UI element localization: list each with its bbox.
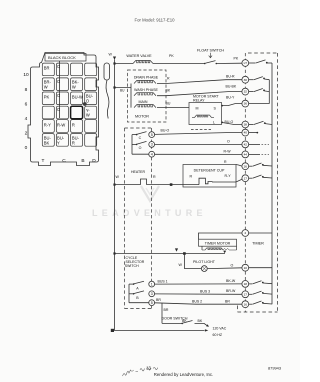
svg-text:R: R [190, 175, 193, 179]
pin 5 (motor plug) [149, 132, 155, 138]
timer collector wire (right) [271, 63, 273, 304]
svg-text:C: C [62, 158, 66, 164]
connector plug P1 [104, 63, 110, 80]
winding: MAIN [134, 100, 156, 107]
svg-text:W: W [72, 84, 76, 89]
svg-text:4: 4 [244, 231, 246, 235]
svg-text:BR: BR [225, 300, 230, 304]
junction: heater/detergent node [170, 183, 173, 186]
cycle selector switch labels [125, 256, 145, 268]
svg-text:TIMER MOTOR: TIMER MOTOR [205, 242, 231, 246]
timer motor M2 [199, 233, 243, 253]
net label PK (timer side) [234, 57, 239, 61]
wire: main winding to start relay M (BU) [157, 102, 189, 108]
svg-text:LT: LT [244, 61, 247, 65]
footer: rendered-by credit [154, 372, 213, 377]
title: For Model: 9117-E10 [134, 17, 175, 22]
wire: BUS 2 / BR [155, 298, 243, 304]
motor assembly dashed enclosure [128, 70, 167, 122]
svg-text:R: R [224, 160, 227, 164]
watermark LEADVENTURE text [92, 208, 207, 218]
svg-text:R-W: R-W [57, 123, 65, 128]
svg-text:BK: BK [166, 88, 171, 92]
svg-text:3: 3 [151, 143, 153, 147]
timer terminal 17b [242, 291, 249, 298]
svg-text:40: 40 [244, 131, 248, 135]
contact A (cycle selector) [129, 281, 144, 290]
motor plug common vertical [131, 135, 133, 155]
footer: page number 13 [146, 366, 151, 371]
cam contact 17 [248, 175, 272, 178]
wire: detergent top feed to timer 26 [224, 160, 242, 166]
svg-text:BK: BK [182, 319, 187, 323]
svg-text:30: 30 [244, 78, 248, 82]
svg-text:BU-W: BU-W [72, 95, 83, 100]
svg-text:42: 42 [244, 143, 248, 147]
timer terminal LT [242, 60, 249, 67]
wire: pilot terminal link [248, 267, 272, 269]
svg-text:8: 8 [25, 87, 28, 93]
wire: plug pin 4 lead [132, 153, 149, 155]
svg-text:S: S [214, 107, 217, 111]
svg-text:3: 3 [151, 292, 153, 296]
pin 3 (motor plug) [149, 142, 155, 148]
svg-text:WATER VALVE: WATER VALVE [126, 54, 152, 58]
svg-text:MAIN: MAIN [139, 100, 148, 104]
svg-text:DRAIN PHASE: DRAIN PHASE [134, 76, 159, 80]
switch: DOOR SWITCH [162, 316, 209, 326]
svg-text:4: 4 [25, 116, 28, 122]
svg-text:BU-Y: BU-Y [226, 96, 235, 100]
svg-text:5: 5 [151, 301, 153, 305]
svg-text:Rendered by LeadVenture, Inc.: Rendered by LeadVenture, Inc. [154, 372, 213, 377]
svg-text:44: 44 [244, 153, 248, 157]
svg-text:L: L [213, 121, 215, 125]
pilot light DS1 [179, 254, 243, 272]
svg-text:BU-BK: BU-BK [226, 85, 237, 89]
svg-text:W: W [109, 53, 113, 57]
timer terminal 36 [242, 100, 249, 107]
pin 5 (cycle selector) [149, 300, 155, 306]
console dashed enclosure (motor plug + cycle selector) [125, 128, 152, 309]
svg-text:O: O [57, 79, 60, 84]
svg-text:W: W [44, 84, 48, 89]
svg-text:WASH PHASE: WASH PHASE [134, 88, 158, 92]
timer terminal 26 [242, 163, 249, 170]
pin 4 (motor plug) [149, 151, 155, 157]
wire: wash phase to timer 32 (BK) [157, 85, 242, 96]
terminal grid cells [42, 63, 96, 146]
wire: bus link to motor [113, 86, 131, 92]
timer dashed enclosure [238, 53, 278, 312]
svg-text:60 HZ: 60 HZ [213, 333, 223, 337]
svg-text:6: 6 [25, 102, 28, 108]
contact C (motor plug) [132, 132, 147, 140]
svg-text:PK: PK [234, 57, 239, 61]
svg-text:4: 4 [151, 153, 153, 157]
junction: pilot branch node [183, 252, 186, 255]
footer: document number 879943 [268, 365, 281, 370]
svg-text:HEATER: HEATER [131, 170, 145, 174]
svg-text:32: 32 [244, 90, 248, 94]
label MOTOR [135, 115, 149, 119]
pin 3 (cycle selector) [149, 291, 155, 297]
wire: neutral bottom line [111, 329, 209, 332]
svg-text:BU-O: BU-O [161, 129, 170, 133]
wire: terminal 42 stub [248, 143, 269, 145]
svg-text:BU-O: BU-O [225, 120, 234, 124]
svg-text:BU: BU [120, 88, 125, 92]
wire: terminal 40 stub [248, 132, 258, 134]
svg-text:B: B [81, 158, 84, 164]
wire: timer motor terminal link [248, 232, 272, 234]
svg-text:O: O [139, 146, 142, 150]
svg-text:B: B [136, 296, 139, 300]
svg-text:O: O [231, 264, 234, 268]
label TIMER [252, 242, 264, 246]
wire: BUS 1 [155, 279, 243, 284]
svg-text:R-W: R-W [224, 149, 232, 153]
cam contact BUS1 [248, 281, 272, 284]
svg-text:O: O [57, 93, 60, 98]
cam contact 30 [248, 77, 269, 80]
svg-text:For Model: 9117-E10: For Model: 9117-E10 [134, 17, 175, 22]
wire: relay L to timer 38 (BU-O) [222, 120, 243, 124]
timer terminal 17 [242, 175, 249, 182]
wire: winding common vertical [130, 84, 132, 108]
cam contact 38 [248, 121, 272, 124]
svg-text:36: 36 [244, 102, 248, 106]
winding: DRAIN PHASE [134, 76, 159, 84]
cam contact BUS2 [248, 301, 272, 304]
heater element [131, 170, 156, 185]
svg-text:120 VAC: 120 VAC [213, 326, 227, 330]
timer terminal 30 [242, 76, 249, 83]
svg-text:TIMER: TIMER [252, 242, 264, 246]
winding: WASH PHASE [134, 88, 159, 96]
svg-text:26: 26 [244, 164, 248, 168]
timer terminal 32 [242, 88, 249, 95]
timer terminal 42 [242, 141, 249, 148]
svg-text:17: 17 [244, 292, 248, 296]
wire: BUS 3 [155, 289, 243, 294]
timer terminal 4 (timer motor) [242, 230, 249, 237]
svg-text:DETERGENT CUP: DETERGENT CUP [194, 169, 225, 173]
svg-text:R-Y: R-Y [44, 123, 51, 128]
timer terminal 16 [242, 301, 249, 308]
contact O (motor plug) [132, 141, 147, 150]
pin row numbers 10 8 6 4 2 0 [23, 72, 29, 151]
svg-text:R: R [167, 76, 170, 80]
svg-text:O: O [86, 99, 89, 104]
svg-text:W: W [116, 175, 120, 179]
svg-text:BR-W: BR-W [226, 289, 236, 293]
svg-text:18: 18 [244, 282, 248, 286]
svg-text:R: R [72, 123, 75, 128]
bimetal actuator (detergent cup) [199, 178, 212, 184]
svg-text:FLOAT SWITCH: FLOAT SWITCH [197, 49, 224, 53]
svg-text:R: R [153, 175, 156, 179]
svg-text:M: M [196, 107, 199, 111]
connector: BLACK BLOCK outline [28, 53, 99, 166]
svg-text:O: O [57, 64, 60, 69]
solenoid coil: WATER VALVE [126, 54, 153, 64]
svg-text:BR: BR [156, 298, 161, 302]
svg-text:A: A [136, 287, 139, 291]
wire: pin3 to timer 42 (O) [155, 139, 243, 144]
svg-text:R: R [72, 140, 75, 145]
cam contact LT [248, 60, 272, 64]
svg-text:BR: BR [164, 308, 169, 312]
net label PK [169, 54, 174, 58]
timer terminal 18 [242, 281, 249, 288]
pin 1 (cycle selector) [149, 281, 155, 287]
svg-text:SWITCH: SWITCH [125, 264, 139, 268]
wire: float switch to timer LT [216, 62, 242, 64]
pin column letters T C B D [42, 158, 97, 164]
svg-text:R-Y: R-Y [225, 174, 232, 178]
timer terminal 44 [242, 151, 249, 158]
terminal grid wire-color labels [44, 64, 94, 145]
wire: pin5 to timer 40 (BU-O) [155, 129, 243, 135]
svg-text:1: 1 [151, 282, 153, 286]
wire: detergent cup to timer 17 [212, 179, 243, 182]
wire: relay dashed tail [191, 129, 211, 131]
junction on bus at water valve rung [113, 62, 115, 64]
wire: neutral rung to pilot/timer branch [113, 248, 225, 254]
wire: heater rung [115, 175, 141, 184]
timer collector wire (inner) [268, 80, 270, 104]
svg-text:O: O [227, 139, 230, 143]
wire: valve to float switch [153, 63, 204, 65]
svg-text:17: 17 [244, 176, 248, 180]
svg-text:PK: PK [44, 95, 50, 100]
svg-text:10: 10 [244, 266, 248, 270]
relay K1: MOTOR START RELAY [189, 95, 223, 125]
watermark LeadVenture V logo [141, 186, 159, 201]
svg-text:16: 16 [244, 302, 248, 306]
svg-text:O: O [57, 107, 60, 112]
timer terminal 40 [242, 129, 249, 136]
junction on bus at heater rung [113, 184, 115, 186]
wire: drain phase to timer 30 (BU-R) [157, 74, 242, 83]
svg-text:BK: BK [198, 319, 203, 323]
timer cam shaft dashed line [244, 53, 246, 312]
contact B (cycle selector) [129, 291, 144, 300]
svg-text:C: C [139, 136, 142, 140]
svg-text:Y: Y [57, 140, 60, 145]
svg-text:2: 2 [25, 131, 28, 137]
detergent cup box [183, 165, 236, 188]
selector common vertical [128, 284, 130, 303]
svg-text:T: T [42, 158, 45, 164]
timer terminal 38 [242, 121, 249, 128]
svg-text:LEADVENTURE: LEADVENTURE [92, 208, 207, 218]
svg-text:BK: BK [44, 140, 50, 145]
svg-text:BLACK BLOCK: BLACK BLOCK [48, 55, 76, 60]
timer terminal 10 (pilot) [242, 264, 249, 271]
node W: supply arrow at top of left bus [109, 53, 117, 60]
svg-text:879943: 879943 [268, 365, 281, 370]
svg-text:BR: BR [44, 65, 50, 70]
wire through block column C [59, 61, 61, 118]
wire: terminal 44 stub [248, 153, 269, 155]
wire: relay S to timer 36 (BU-Y) [222, 96, 243, 106]
svg-text:W: W [179, 263, 183, 267]
svg-text:38: 38 [244, 123, 248, 127]
svg-text:0: 0 [25, 145, 28, 151]
svg-text:BUS 2: BUS 2 [192, 300, 202, 304]
svg-text:W: W [86, 113, 90, 118]
wire: door switch drop [162, 303, 169, 323]
svg-text:BU-R: BU-R [226, 74, 235, 78]
svg-text:BUS 1: BUS 1 [158, 280, 168, 284]
cam contact 26 [248, 163, 272, 166]
cam contact 32 [248, 89, 269, 92]
wire: heater to detergent cup [147, 184, 200, 186]
svg-text:PK: PK [169, 54, 174, 58]
wire: left vertical bus [114, 60, 116, 331]
svg-text:BUS 3: BUS 3 [200, 290, 210, 294]
cam contact BUS3 [248, 291, 272, 294]
footer: handwritten mark [123, 367, 158, 376]
svg-text:RELAY: RELAY [193, 99, 205, 103]
wire: terminal 36 link [248, 103, 269, 105]
svg-text:5: 5 [151, 133, 153, 137]
wire: water valve rung [115, 63, 134, 65]
power labels 120 VAC 60 HZ [213, 326, 227, 337]
label: BLACK BLOCK [45, 54, 86, 62]
switch: FLOAT SWITCH [197, 49, 224, 65]
wire: pin4 to timer 44 (R-W) [155, 149, 243, 154]
svg-text:PILOT LIGHT: PILOT LIGHT [193, 260, 216, 264]
svg-text:BK-W: BK-W [226, 279, 236, 283]
svg-text:10: 10 [23, 72, 29, 78]
svg-text:BU: BU [166, 102, 171, 106]
wire: harness lead from plug [106, 80, 109, 119]
wire: selector pin 5 lead [129, 302, 149, 304]
svg-text:MOTOR: MOTOR [135, 115, 149, 119]
svg-text:D: D [92, 158, 96, 164]
